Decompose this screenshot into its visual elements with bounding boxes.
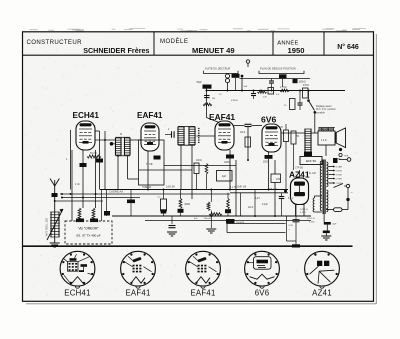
- svg-text:0 TBR: 0 TBR: [336, 179, 343, 181]
- svg-text:8μF: 8μF: [333, 224, 337, 226]
- svg-text:4.250: 4.250: [309, 222, 315, 224]
- svg-text:700mW: 700mW: [204, 218, 212, 220]
- svg-text:6,3V: 6,3V: [255, 198, 260, 200]
- svg-text:EAF41: EAF41: [125, 289, 150, 298]
- svg-text:1HF: 1HF: [276, 179, 281, 181]
- svg-text:1M: 1M: [212, 98, 215, 100]
- svg-text:~: ~: [351, 191, 353, 195]
- svg-text:100KΩ: 100KΩ: [299, 82, 306, 84]
- svg-text:5nF: 5nF: [244, 86, 248, 88]
- svg-text:4.2.R: 4.2.R: [321, 140, 327, 142]
- svg-text:1MF LM: 1MF LM: [237, 186, 246, 189]
- svg-text:1nF: 1nF: [263, 97, 267, 99]
- svg-text:EAF41: EAF41: [190, 289, 215, 298]
- svg-text:10nF: 10nF: [240, 132, 246, 134]
- svg-text:ECH41: ECH41: [64, 289, 90, 298]
- svg-text:sensible: sensible: [316, 111, 325, 114]
- svg-text:AZ41: AZ41: [312, 289, 332, 298]
- svg-text:250Ω: 250Ω: [263, 161, 269, 164]
- svg-text:4L 4x8: 4L 4x8: [309, 173, 317, 175]
- svg-text:100K: 100K: [224, 161, 230, 164]
- svg-text:6,3V: 6,3V: [289, 225, 294, 227]
- svg-text:EFF 56: EFF 56: [306, 159, 316, 163]
- svg-text:TUBE 44: TUBE 44: [142, 187, 152, 189]
- svg-text:CONSTRUCTEUR: CONSTRUCTEUR: [27, 39, 83, 46]
- svg-text:Ø1. ST TX 480 pF: Ø1. ST TX 480 pF: [76, 234, 100, 238]
- svg-text:4 TBB: 4 TBB: [336, 175, 343, 177]
- svg-text:EAF41: EAF41: [137, 111, 163, 120]
- svg-text:ECH41: ECH41: [73, 111, 100, 120]
- svg-text:1950: 1950: [288, 46, 305, 55]
- svg-text:47KΩ: 47KΩ: [303, 85, 309, 87]
- svg-text:600Ω: 600Ω: [185, 204, 191, 206]
- svg-text:6V6: 6V6: [255, 289, 270, 298]
- svg-text:6,3 V: 6,3 V: [288, 198, 294, 200]
- svg-text:ANT. REGL. 220: ANT. REGL. 220: [46, 218, 49, 236]
- svg-text:270.1.B: 270.1.B: [300, 209, 308, 211]
- svg-text:0,1μF: 0,1μF: [262, 204, 269, 206]
- svg-text:470KΩ: 470KΩ: [231, 100, 238, 102]
- svg-text:M: M: [120, 133, 122, 136]
- svg-text:4 CAR: 4 CAR: [336, 166, 343, 169]
- svg-text:CADRE AA: CADRE AA: [109, 190, 123, 194]
- svg-text:4 x HT: 4 x HT: [230, 187, 237, 189]
- svg-text:6 BTB: 6 BTB: [336, 171, 343, 173]
- svg-text:2 nF: 2 nF: [75, 183, 80, 186]
- svg-text:0,05 1M: 0,05 1M: [166, 186, 175, 189]
- svg-text:2.7KΩ: 2.7KΩ: [280, 87, 287, 89]
- svg-text:SUITE DU SECTEUR: SUITE DU SECTEUR: [205, 66, 230, 70]
- svg-text:Tr. MF: Tr. MF: [146, 163, 153, 166]
- svg-text:N° 646: N° 646: [337, 43, 359, 51]
- svg-text:50pF: 50pF: [197, 82, 203, 84]
- svg-text:LTP 56: LTP 56: [295, 167, 303, 170]
- svg-text:PLAN DE DESSUS POSITION: PLAN DE DESSUS POSITION: [260, 66, 296, 70]
- svg-text:TER: TER: [344, 156, 349, 158]
- svg-text:SCHNEIDER Frères: SCHNEIDER Frères: [83, 46, 149, 55]
- svg-text:270.1.B: 270.1.B: [307, 218, 315, 220]
- svg-text:4μF: 4μF: [222, 174, 227, 178]
- svg-text:MODÈLE: MODÈLE: [160, 38, 188, 45]
- svg-text:22nF: 22nF: [248, 207, 254, 209]
- svg-text:Vis “OREOR”: Vis “OREOR”: [78, 227, 98, 231]
- svg-text:10KΩ: 10KΩ: [196, 160, 202, 162]
- svg-text:6V6: 6V6: [261, 115, 277, 125]
- svg-text:MENUET 49: MENUET 49: [192, 46, 235, 55]
- svg-text:4.250: 4.250: [300, 212, 306, 214]
